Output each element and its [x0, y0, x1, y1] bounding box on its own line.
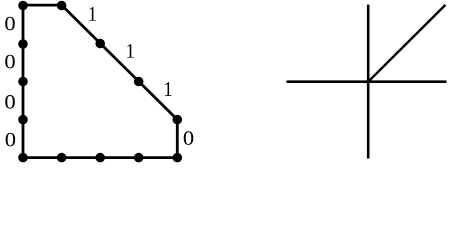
tropical line: vertical ray pair: [367, 5, 370, 159]
lattice point (1,0) bottom: [57, 153, 67, 163]
lattice point (0,1) left edge: [18, 115, 28, 125]
label 0 right edge: [184, 131, 194, 145]
lattice point (2,3) on diagonal: [95, 39, 105, 49]
label 0 left edge segment 4: [6, 133, 16, 147]
lattice point (2,0) bottom: [95, 153, 105, 163]
Newton polygon outline: [23, 5, 177, 158]
label 1 diagonal segment 3: [165, 82, 171, 96]
tropical line: diagonal ray: [368, 5, 445, 82]
label 0 left edge segment 1: [5, 17, 15, 31]
label 0 left edge segment 3: [5, 95, 15, 109]
lattice point (0,4) top-left: [18, 1, 28, 11]
label 1 diagonal segment 1: [89, 7, 95, 21]
label 1 diagonal segment 2: [127, 44, 133, 58]
lattice point (0,2) left edge: [18, 77, 28, 87]
tropical line: horizontal ray pair: [286, 80, 446, 83]
lattice point (3,2) on diagonal: [134, 77, 144, 87]
lattice point (0,3) left edge: [18, 39, 28, 49]
lattice point (4,1): [173, 115, 183, 125]
label 0 left edge segment 2: [5, 55, 15, 69]
lattice point (0,0) bottom-left: [18, 153, 28, 163]
lattice point (4,0) bottom-right: [173, 153, 183, 163]
lattice point (1,4): [57, 1, 67, 11]
lattice point (3,0) bottom: [134, 153, 144, 163]
